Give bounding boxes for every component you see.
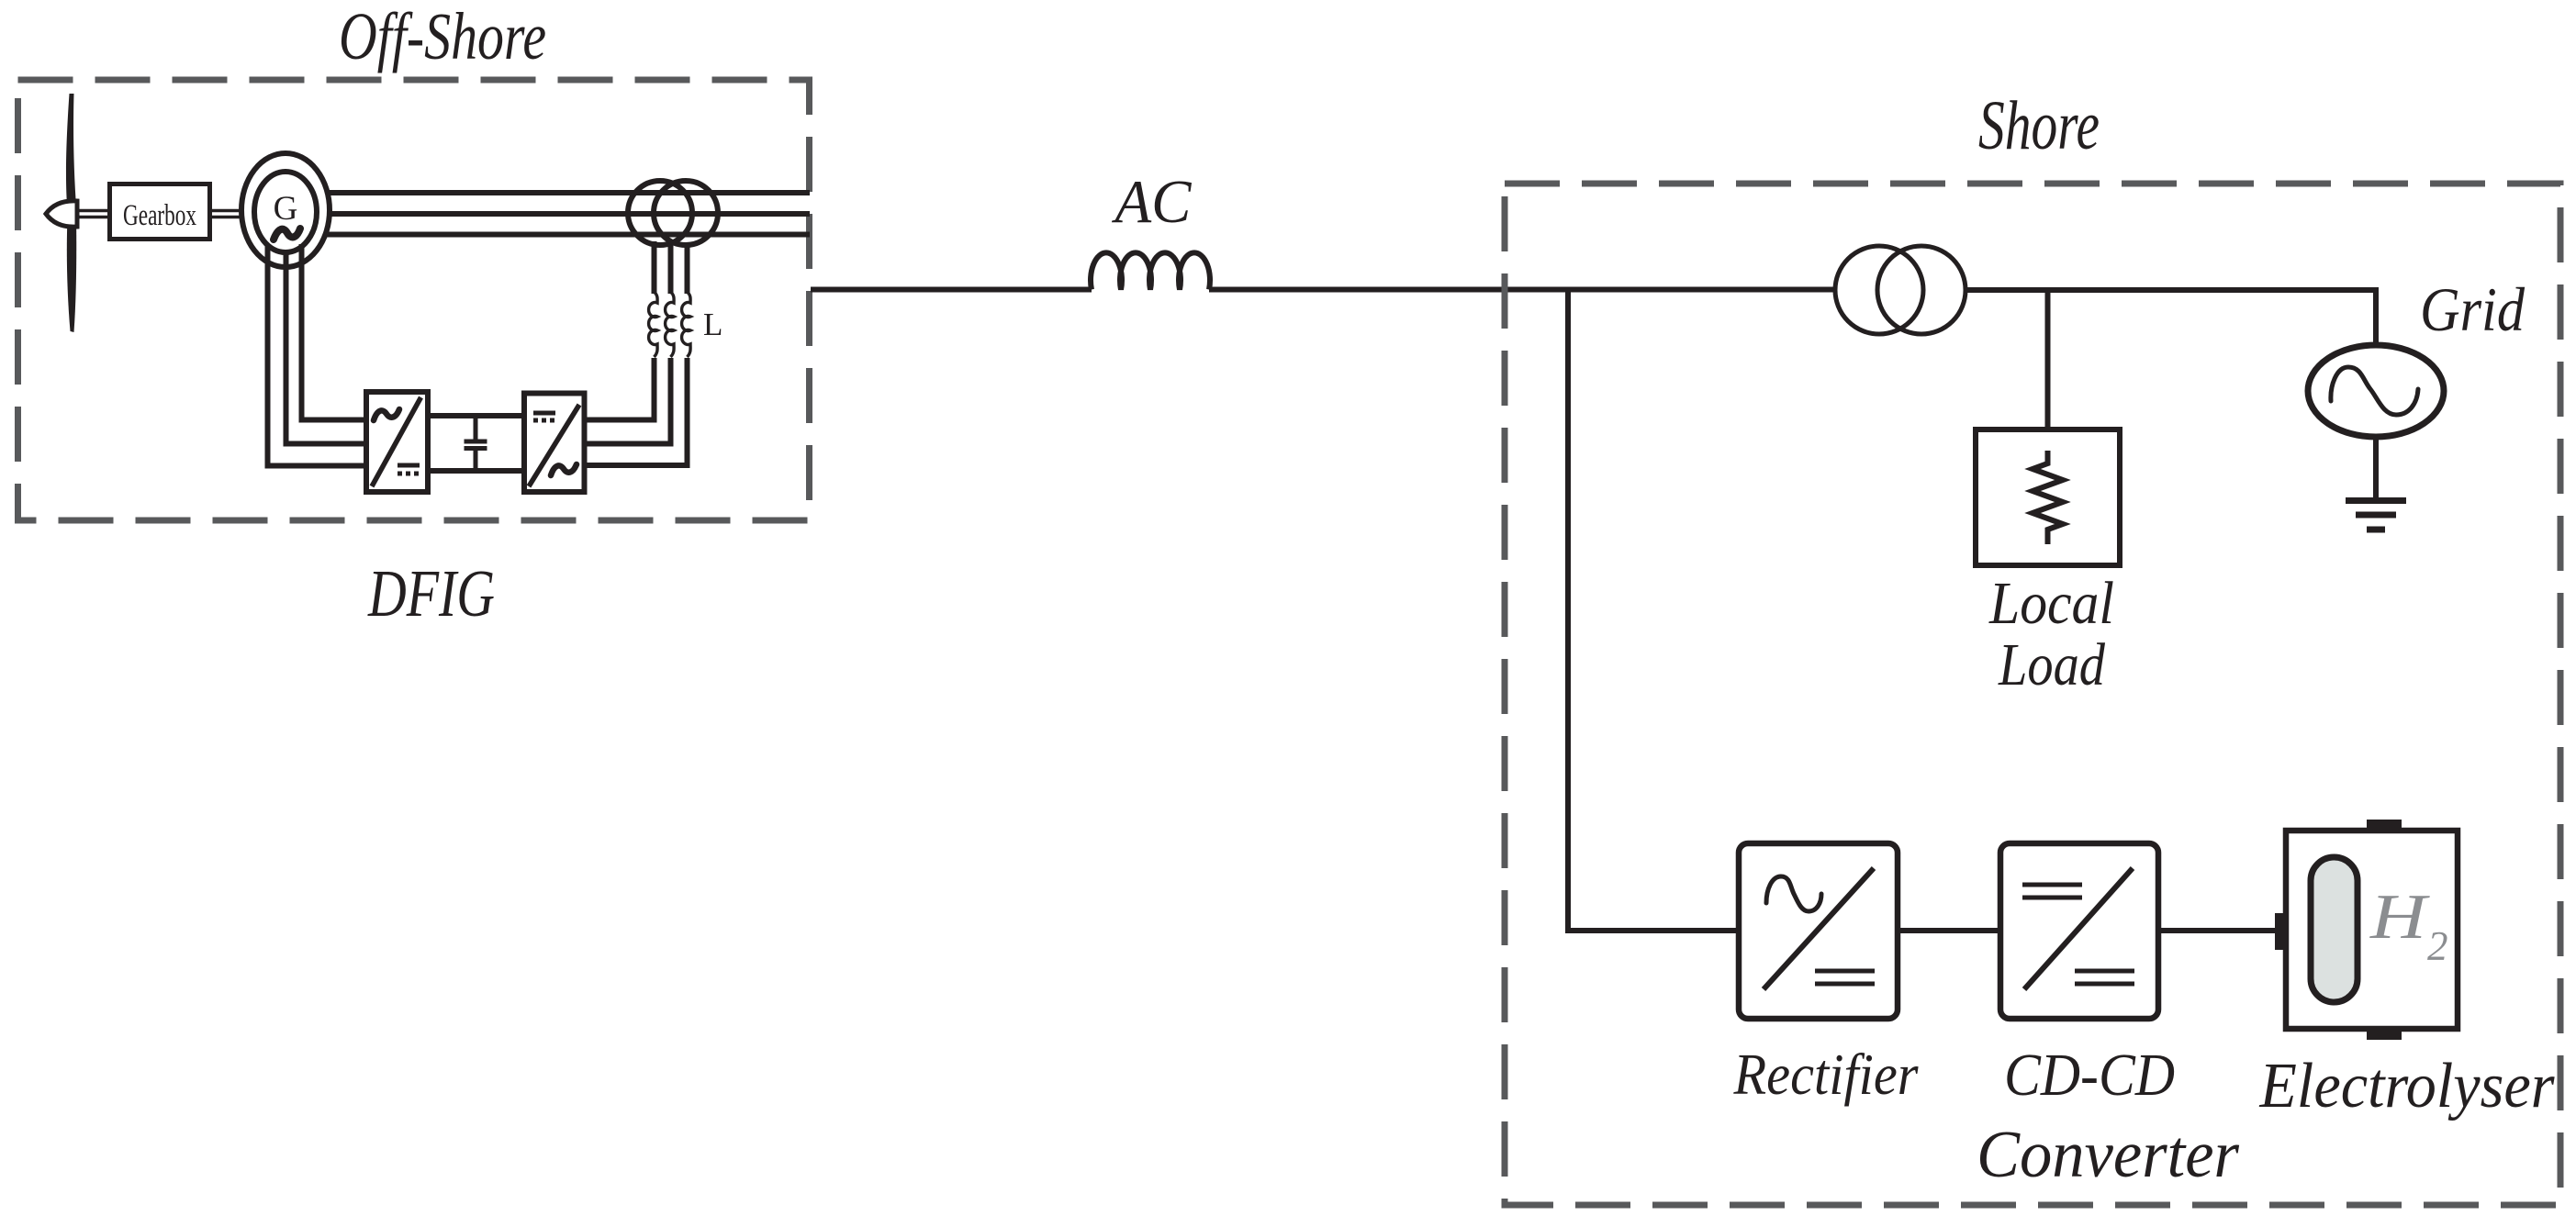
- svg-text:Rectifier: Rectifier: [1733, 1042, 1920, 1107]
- rotor-side converter (AC/DC): [366, 392, 428, 492]
- gearbox box: [110, 184, 210, 240]
- svg-text:Gearbox: Gearbox: [123, 199, 196, 232]
- wires grid-side converter to choke L (3 wires): [583, 358, 655, 420]
- DC link bottom wire: [428, 468, 526, 474]
- svg-text:Local: Local: [1988, 570, 2114, 637]
- electrolyser left terminal tab: [2275, 913, 2286, 950]
- AC submarine cable wire (left): [811, 287, 1092, 293]
- rotor wire a: generator bottom to rotor-side converter: [268, 246, 367, 466]
- shaft gearbox-to-generator (double line): [210, 209, 244, 213]
- choke inductor L phase c: [685, 242, 690, 294]
- svg-text:Grid: Grid: [2420, 274, 2526, 344]
- svg-text:Load: Load: [1998, 631, 2106, 698]
- turbine hub (nose cone): [46, 201, 77, 227]
- grid-side converter (DC/AC): [524, 394, 585, 493]
- svg-text:L: L: [703, 307, 722, 342]
- grid AC source: [2308, 345, 2444, 437]
- Shore dashed boundary box: [1505, 184, 2560, 1205]
- svg-text:G: G: [274, 190, 298, 228]
- generator G (DFIG machine): [241, 153, 330, 267]
- Off-Shore dashed boundary box: [18, 80, 810, 520]
- load resistor: [2033, 451, 2063, 544]
- wire CD-CD converter to electrolyser: [2158, 928, 2278, 933]
- DC link top wire: [428, 413, 526, 418]
- electrolyser top terminal tab: [2367, 820, 2402, 831]
- AC submarine cable wire (right): [1209, 287, 1835, 293]
- svg-text:Off-Shore: Off-Shore: [339, 0, 546, 73]
- off-shore transformer: [628, 181, 692, 245]
- svg-text:2: 2: [2427, 923, 2448, 969]
- svg-text:DFIG: DFIG: [367, 556, 495, 630]
- electrolyser bottom terminal tab: [2367, 1029, 2402, 1040]
- DC link capacitor: [474, 416, 478, 441]
- shaft hub-to-gearbox (double line): [77, 209, 111, 213]
- svg-text:Shore: Shore: [1978, 87, 2100, 164]
- svg-text:H: H: [2369, 882, 2430, 953]
- electrolyser cell (pill): [2311, 857, 2358, 1002]
- AC cable inductance: [1091, 252, 1210, 289]
- tap wire down to rectifier: [1568, 290, 1739, 931]
- wind turbine blades: [66, 94, 77, 332]
- three-phase stator bus (3 wires) from generator to off-shore edge: [323, 190, 810, 195]
- electrolyser box: [2286, 831, 2458, 1029]
- tap wire down to local load: [2045, 290, 2051, 429]
- choke inductor L phase a: [652, 241, 657, 294]
- rotor wire c: [302, 244, 367, 420]
- rotor wire b: [286, 252, 367, 444]
- CD-CD converter box: [2000, 843, 2158, 1019]
- local load box: [1976, 429, 2120, 565]
- ground symbol: [2346, 497, 2406, 504]
- wire rectifier to CD-CD converter: [1898, 928, 2000, 933]
- bus wire transformer to grid: [1966, 287, 2379, 293]
- choke inductor L phase b: [668, 241, 674, 294]
- svg-text:Electrolyser: Electrolyser: [2259, 1051, 2556, 1121]
- rectifier box: [1739, 843, 1898, 1019]
- shore transformer: [1835, 246, 1923, 334]
- svg-text:AC: AC: [1112, 168, 1193, 236]
- svg-text:Converter: Converter: [1977, 1117, 2240, 1191]
- wire down to grid source: [2373, 287, 2379, 346]
- svg-text:CD-CD: CD-CD: [2004, 1042, 2175, 1109]
- wire grid source to ground: [2373, 437, 2379, 500]
